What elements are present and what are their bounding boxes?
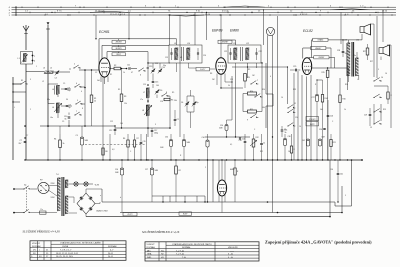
svg-text:6: 6	[140, 75, 141, 77]
capacitor IFT2 b	[255, 48, 257, 60]
resistor R7	[133, 134, 138, 160]
svg-text:R13: R13	[293, 89, 296, 91]
electrolytic C38	[76, 132, 89, 160]
resistor R16	[339, 78, 346, 160]
svg-text:L6: L6	[52, 107, 54, 109]
svg-text:CERNY: CERNY	[318, 57, 325, 59]
wire anode ECH81 to IFT1	[148, 39, 177, 63]
wire bus line 1	[12, 14, 397, 16]
svg-text:L10: L10	[187, 43, 190, 45]
transformer IFT1 box	[169, 45, 202, 63]
boxed label lead4	[218, 40, 232, 44]
wire ECH81 frame	[99, 39, 177, 70]
wire bridge out	[74, 204, 86, 217]
svg-text:L3: L3	[43, 68, 45, 70]
svg-text:R11: R11	[250, 109, 253, 111]
svg-text:ZELENY: ZELENY	[222, 42, 229, 44]
svg-text:Tr1: Tr1	[56, 174, 59, 176]
wire v180	[179, 16, 181, 137]
svg-text:10 14: 10 14	[205, 14, 211, 16]
switch S6	[138, 68, 145, 77]
svg-text:MODRY: MODRY	[116, 48, 123, 50]
svg-text:HNEDY: HNEDY	[315, 48, 322, 50]
svg-text:CÍVKA: CÍVKA	[62, 245, 69, 248]
wire bottom mid bus	[205, 136, 250, 137]
svg-text:L: L	[357, 79, 358, 81]
transformer Tr1 HT winding	[65, 196, 68, 214]
transformer Tr1 primary	[58, 178, 61, 211]
boxed label bottom1	[123, 212, 137, 216]
wire bus drop IFT1	[169, 14, 170, 45]
svg-text:100: 100	[120, 123, 123, 125]
coil L8 adjustable	[142, 105, 152, 116]
wire bus drop EBF89	[220, 14, 221, 40]
svg-text:7–A: 7–A	[182, 256, 186, 259]
svg-text:5k: 5k	[65, 119, 67, 121]
svg-text:6 10 9 3: 6 10 9 3	[300, 14, 308, 16]
node bus left tie	[15, 6, 16, 16]
svg-text:50M: 50M	[219, 128, 223, 130]
wire v232	[225, 76, 233, 120]
wire osc mid	[147, 84, 157, 103]
bus terminal ticks	[22, 6, 392, 15]
svg-text:VLNOVÝ: VLNOVÝ	[32, 242, 41, 245]
svg-text:150: 150	[105, 151, 108, 153]
coil L1	[18, 54, 28, 63]
capacitor C31	[327, 100, 333, 160]
svg-text:R7: R7	[137, 138, 139, 140]
coil L4	[52, 86, 60, 95]
svg-text:C29: C29	[364, 115, 367, 117]
wire to selector	[31, 188, 37, 190]
tube label EBF89 EM80	[212, 29, 239, 33]
svg-text:R17: R17	[363, 51, 366, 53]
table2 title	[142, 229, 180, 235]
wire ECL82 pins	[294, 71, 311, 160]
svg-text:7: 7	[257, 80, 258, 82]
svg-text:M1: M1	[180, 57, 182, 59]
svg-text:GRA: GRA	[147, 253, 152, 256]
svg-text:R21: R21	[333, 142, 336, 144]
boxed label lead3	[112, 52, 126, 56]
svg-text:R12: R12	[256, 137, 259, 139]
svg-text:50M: 50M	[115, 172, 119, 174]
svg-text:EM80: EM80	[230, 169, 234, 171]
switch mains b	[23, 209, 30, 213]
svg-text:R9: R9	[248, 69, 250, 71]
svg-text:2: 2	[74, 64, 75, 66]
svg-text:6: 6	[81, 91, 82, 93]
svg-text:R6: R6	[123, 138, 125, 140]
value annotations	[14, 55, 387, 199]
resistor R10 boxed	[248, 91, 257, 95]
svg-text:C2: C2	[177, 119, 179, 121]
bus terminal numbers	[25, 6, 388, 16]
electrolytic C33	[182, 134, 190, 160]
svg-text:~6,3V: ~6,3V	[94, 185, 100, 187]
capacitor IFT1 b	[197, 48, 199, 60]
svg-text:50M: 50M	[155, 170, 159, 172]
svg-text:R8: R8	[210, 73, 212, 75]
electrolytic C37	[283, 134, 290, 160]
svg-text:140: 140	[156, 85, 159, 87]
capacitor C22b	[239, 138, 245, 141]
svg-text:C16: C16	[159, 90, 162, 92]
capacitor C24	[281, 126, 288, 137]
wire v240	[236, 63, 241, 137]
coil IFT1 primary	[175, 48, 178, 60]
svg-text:12,5+12,5 10,5 9: 12,5+12,5 10,5 9	[110, 14, 126, 16]
svg-text:C7: C7	[20, 140, 22, 142]
svg-text:C27: C27	[312, 97, 315, 99]
svg-text:C12: C12	[109, 130, 112, 132]
svg-text:R17: R17	[370, 61, 373, 63]
svg-text:C6: C6	[181, 102, 183, 104]
svg-text:C16: C16	[160, 101, 163, 103]
trimmer C14	[158, 67, 165, 73]
svg-text:ECL82: ECL82	[303, 29, 313, 33]
svg-text:VYSOKY: VYSOKY	[309, 119, 316, 121]
svg-text:3: 3	[155, 124, 156, 126]
svg-text:3 – A: 3 – A	[228, 253, 233, 256]
svg-text:C26: C26	[319, 129, 322, 131]
wire IFT1 to EBF89	[189, 68, 216, 69]
resistor R14	[316, 76, 327, 160]
svg-text:C7: C7	[26, 135, 28, 137]
wire EM80 top leads	[219, 160, 225, 182]
svg-text:R4: R4	[54, 139, 56, 141]
svg-text:R15: R15	[322, 72, 325, 74]
wire sec links	[349, 52, 368, 82]
bus hump detail	[90, 6, 370, 16]
resistor R20	[175, 160, 181, 202]
svg-text:OTÁČENÍ LADÍCÍ HOD. SE ZKOUŠ.: OTÁČENÍ LADÍCÍ HOD. SE ZKOUŠ. TAKTU	[172, 243, 212, 246]
core IFT2	[241, 47, 243, 61]
svg-text:L4: L4	[52, 89, 54, 91]
svg-text:C13: C13	[149, 66, 152, 68]
resistor R13	[290, 134, 295, 160]
svg-text:C42: C42	[302, 140, 305, 142]
svg-text:5k: 5k	[345, 53, 347, 55]
core IFT1	[182, 47, 184, 61]
tube ECH81	[99, 58, 110, 77]
wire mids drop	[110, 134, 147, 160]
svg-text:16: 16	[385, 73, 387, 75]
wire osc row lower	[115, 127, 171, 129]
svg-text:7–2 7–A: 7–2 7–A	[176, 253, 184, 256]
wire ECL82 anode line	[312, 67, 349, 76]
bus line numbers	[9, 7, 11, 17]
electrolytic C27	[312, 80, 319, 160]
svg-text:R10: R10	[262, 89, 265, 91]
svg-text:C34: C34	[202, 137, 205, 139]
svg-text:C2: C2	[95, 72, 97, 74]
wire bus drop det	[206, 12, 207, 40]
capacitor C10	[64, 113, 70, 127]
svg-text:C30: C30	[288, 136, 291, 138]
svg-text:L13: L13	[344, 40, 347, 42]
switch S4	[75, 100, 82, 105]
svg-text:8: 8	[82, 108, 83, 110]
table2 voltages	[145, 242, 259, 261]
svg-text:4: 4	[76, 83, 77, 85]
wire row1	[26, 69, 86, 72]
svg-text:R10: R10	[250, 91, 253, 93]
boxed label lead7	[314, 56, 329, 59]
svg-text:6: 6	[270, 76, 271, 78]
table1 title	[23, 228, 61, 234]
table1 voltages	[30, 241, 126, 260]
switch S14	[373, 77, 382, 82]
svg-text:C34: C34	[330, 169, 333, 171]
wire left col drops	[24, 77, 103, 160]
svg-text:L2: L2	[42, 81, 44, 83]
boxed label VF	[196, 68, 210, 72]
svg-text:8: 8	[166, 92, 167, 94]
svg-text:a: a	[100, 195, 101, 197]
svg-text:L9: L9	[174, 43, 176, 45]
svg-text:ECH81: ECH81	[99, 30, 110, 34]
coil L3	[43, 68, 53, 74]
capacitor C8	[65, 88, 71, 92]
svg-text:C11: C11	[127, 65, 130, 67]
svg-text:5k6: 5k6	[320, 109, 323, 111]
svg-text:2k7: 2k7	[19, 143, 22, 145]
svg-text:ROZSAH: ROZSAH	[32, 245, 41, 248]
wire antenna down	[25, 64, 27, 72]
switch mains a	[23, 186, 30, 190]
svg-text:ROZSAH: ROZSAH	[147, 246, 156, 249]
svg-text:C3: C3	[76, 135, 78, 137]
lamp Z2	[84, 182, 88, 186]
svg-text:2: 2	[30, 109, 31, 111]
transformer Tr1 core	[62, 177, 64, 216]
wire bottom rail B	[120, 186, 343, 213]
svg-text:Vp: Vp	[24, 185, 26, 187]
svg-text:R3: R3	[124, 96, 126, 98]
lamp Z1	[74, 182, 78, 186]
resistor R3	[120, 68, 126, 129]
switch S9	[254, 94, 262, 98]
svg-text:4 6 14a: 4 6 14a	[222, 11, 230, 13]
svg-text:RAD: RAD	[147, 256, 152, 259]
svg-text:EBF89: EBF89	[212, 29, 222, 33]
svg-text:7–2 7–A: 7–2 7–A	[176, 249, 184, 252]
label IFT1 coils	[174, 43, 190, 45]
svg-text:C24: C24	[295, 117, 298, 119]
capacitor C18	[174, 110, 179, 126]
svg-text:L14: L14	[356, 40, 359, 42]
electrolytic C20	[219, 120, 228, 137]
svg-text:2: 2	[205, 167, 206, 169]
svg-text:R16: R16	[345, 84, 348, 86]
coil IFT2 primary	[234, 48, 237, 60]
fuse Po	[31, 209, 57, 214]
svg-text:R5: R5	[172, 92, 174, 94]
wire bus line 4	[12, 6, 397, 8]
tube ECL82	[302, 58, 311, 75]
svg-text:3: 3	[30, 79, 31, 81]
svg-text:C20: C20	[203, 55, 206, 57]
wire bottom left bus	[40, 125, 115, 127]
wire ECH81 anode row	[109, 68, 114, 69]
wire ECL82 frame	[303, 40, 362, 68]
tube EM80	[217, 180, 226, 196]
wire bottom rail A	[102, 159, 352, 206]
svg-text:30p: 30p	[163, 65, 166, 67]
rectifier bridge	[77, 193, 95, 214]
svg-text:C19: C19	[143, 141, 146, 143]
wire row2	[48, 84, 86, 97]
trimmer C18b	[192, 96, 199, 112]
electrolytic C34	[202, 134, 210, 160]
node L1 terminals	[32, 55, 35, 63]
svg-text:C21: C21	[224, 51, 227, 53]
wire antenna feed	[25, 72, 27, 161]
node left joints	[12, 91, 26, 102]
svg-text:1k: 1k	[94, 100, 96, 102]
svg-text:6,3: 6,3	[112, 149, 114, 151]
capacitor IFT1 a	[170, 48, 172, 60]
capacitor C41	[337, 160, 343, 203]
wire IFT2 down	[232, 63, 288, 104]
capacitor C28	[337, 39, 347, 57]
wire bridge plus	[86, 189, 102, 204]
label IFT2 coils	[224, 43, 262, 53]
boxed label out1	[306, 117, 319, 122]
wire IFT1 down	[172, 63, 189, 72]
label Tr1	[56, 174, 59, 176]
voltage selector PV	[38, 180, 49, 194]
electrolytic C40	[145, 160, 158, 202]
capacitor C30	[364, 108, 371, 126]
resistor R17	[363, 44, 369, 60]
transformer Tr1 heater winding	[65, 180, 68, 188]
svg-text:9: 9	[247, 120, 248, 122]
svg-text:L13a: L13a	[352, 55, 356, 57]
transformer IFT2 box	[228, 45, 261, 63]
svg-text:1k: 1k	[344, 109, 346, 111]
svg-text:26–R: 26–R	[108, 253, 113, 255]
svg-text:56k: 56k	[262, 107, 265, 109]
svg-text:NORMÁL: NORMÁL	[182, 246, 191, 249]
switch S3	[74, 83, 81, 88]
capacitor C31b	[319, 128, 326, 131]
resistor R19	[234, 160, 239, 202]
svg-text:L12: L12	[246, 43, 249, 45]
svg-text:R9: R9	[248, 77, 250, 79]
svg-text:L6a: L6a	[50, 117, 53, 119]
switch S1	[12, 80, 27, 85]
svg-text:R14: R14	[325, 98, 328, 100]
svg-text:C14: C14	[162, 67, 165, 69]
wire bus drop IFT2	[263, 9, 264, 45]
wire speaker2	[381, 45, 391, 128]
resistor R18	[374, 86, 393, 104]
svg-text:C12: C12	[110, 121, 113, 123]
trimmer C18a	[181, 96, 189, 112]
svg-text:1: 1	[36, 66, 37, 68]
electrolytic C42	[302, 139, 310, 146]
switch S15	[373, 94, 381, 98]
wire EBF89 pins	[217, 74, 225, 89]
svg-text:7–4 9–4 1–7: 7–4 9–4 1–7	[60, 250, 72, 252]
switch S12	[287, 109, 295, 113]
capacitor C9	[66, 105, 71, 109]
svg-text:11: 11	[294, 103, 296, 105]
trimmer C13	[149, 66, 155, 73]
wire bus drop grid1	[95, 15, 96, 40]
electrolytic C39	[115, 160, 124, 213]
svg-text:14: 14	[299, 126, 301, 128]
svg-text:Zapojení přijímače 424A „GAVOT: Zapojení přijímače 424A „GAVOTA" (posled…	[265, 239, 372, 244]
svg-text:15: 15	[370, 127, 372, 129]
capacitor C17	[151, 128, 158, 137]
wire speaker1	[371, 24, 375, 77]
switch S10	[247, 114, 258, 121]
svg-text:30: 30	[66, 99, 68, 101]
antenna A1	[23, 25, 29, 50]
wire grid to tube	[85, 69, 99, 71]
svg-text:R1: R1	[110, 74, 112, 76]
svg-text:L4a: L4a	[47, 99, 50, 101]
switch S2	[70, 64, 81, 71]
capacitor C15	[152, 73, 159, 83]
svg-text:7: 7	[76, 111, 77, 113]
svg-text:C35: C35	[239, 140, 242, 142]
svg-text:R2: R2	[179, 170, 181, 172]
svg-text:C26: C26	[330, 116, 333, 118]
svg-text:C9: C9	[62, 121, 64, 123]
svg-text:B250 C750: B250 C750	[97, 211, 109, 213]
svg-text:5: 5	[77, 100, 78, 102]
wire grid line ECH81	[98, 70, 100, 77]
capacitor C7	[19, 137, 27, 145]
electrolytic C43	[318, 137, 325, 147]
dashed gang link	[85, 144, 146, 146]
svg-text:b: b	[120, 197, 121, 199]
capacitor C25	[290, 66, 300, 71]
capacitor C36	[260, 134, 265, 160]
svg-text:L7: L7	[143, 92, 145, 94]
switch S8	[250, 80, 258, 85]
wire selector taps	[49, 183, 57, 199]
svg-text:ORANZ: ORANZ	[317, 39, 323, 42]
resistor R11 boxed	[248, 109, 257, 113]
wire v277	[277, 16, 279, 160]
wire osc bottom	[147, 116, 149, 137]
switch S16	[370, 121, 382, 129]
wire bus drop IFT1b	[194, 12, 196, 45]
svg-text:ZLUTY: ZLUTY	[200, 69, 206, 71]
resistor R6	[123, 134, 129, 160]
svg-text:14: 14	[381, 77, 383, 79]
svg-text:L8: L8	[142, 110, 144, 112]
svg-text:R2: R2	[114, 65, 116, 67]
svg-text:C41: C41	[340, 174, 343, 176]
svg-text:C19: C19	[165, 57, 168, 59]
coil L6 adjustable	[52, 103, 62, 113]
label B250C750	[97, 211, 109, 213]
svg-text:C15: C15	[155, 82, 158, 84]
wire switch drops	[48, 70, 85, 126]
svg-text:C32: C32	[165, 137, 168, 139]
wire HT to bridge	[69, 197, 78, 213]
potentiometer R12	[250, 134, 259, 160]
transformer Tr2 primary	[347, 43, 350, 76]
capacitor C19	[140, 134, 146, 160]
svg-text:L: L	[14, 107, 15, 109]
